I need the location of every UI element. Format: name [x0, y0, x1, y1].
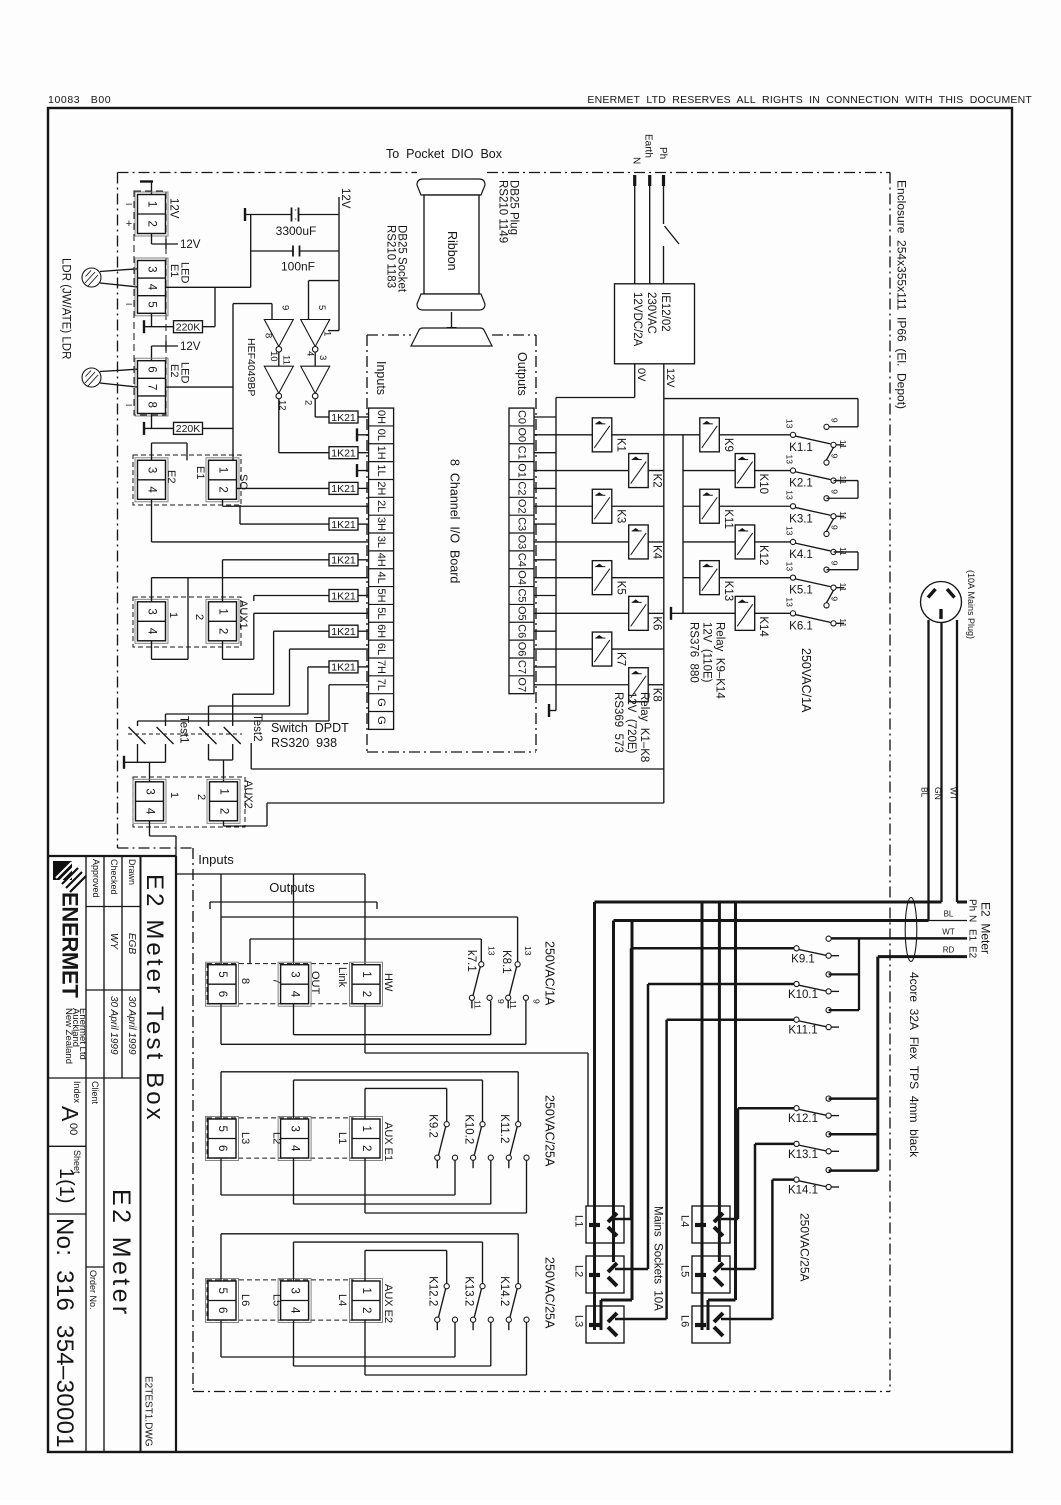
svg-text:250VAC/1A: 250VAC/1A	[799, 648, 813, 713]
svg-text:1K21: 1K21	[331, 483, 356, 495]
svg-text:10: 10	[268, 351, 279, 362]
svg-text:0L: 0L	[375, 429, 387, 441]
connector pins 3-4	[278, 1117, 311, 1161]
svg-text:4: 4	[146, 486, 158, 493]
svg-text:4: 4	[289, 1307, 301, 1314]
switch pole x232.7	[224, 727, 241, 744]
wire K12.2 bottom loop	[220, 1320, 222, 1357]
PSU 0V output	[634, 364, 636, 398]
svg-text:6: 6	[216, 1307, 228, 1313]
svg-text:1: 1	[217, 608, 229, 614]
svg-text:WT: WT	[949, 787, 959, 800]
svg-text:6: 6	[216, 991, 228, 997]
svg-text:OUT: OUT	[309, 971, 321, 995]
wire J1-2 to 12V tap	[151, 234, 153, 245]
wire pin4 to 220K and caps	[166, 286, 251, 288]
svg-text:Checked: Checked	[109, 859, 119, 895]
wire K11.2 top	[220, 1072, 222, 1119]
svg-text:3: 3	[289, 1126, 301, 1132]
connector OUT pins 3-4	[278, 962, 311, 1006]
svg-text:K13.1: K13.1	[788, 1149, 818, 1161]
svg-text:E2 Meter: E2 Meter	[107, 1189, 135, 1318]
svg-text:2: 2	[193, 614, 205, 620]
connector LED E1 pins 3-5	[135, 258, 168, 316]
link K3.1 via bus	[834, 480, 859, 482]
wires into PSU	[634, 186, 636, 284]
svg-text:K8: K8	[651, 688, 663, 702]
svg-text:7: 7	[146, 384, 158, 390]
link K3.1 to K4.1	[827, 519, 834, 532]
svg-text:Order No.: Order No.	[88, 1270, 98, 1310]
relay K5	[592, 561, 612, 595]
svg-text:WY: WY	[108, 933, 119, 950]
svg-text:13: 13	[785, 597, 795, 607]
svg-text:10083 B00: 10083 B00	[48, 94, 111, 106]
svg-text:K1.1: K1.1	[789, 442, 813, 454]
resistor 220K R2	[174, 422, 203, 434]
connector SO pins 1-2	[206, 458, 239, 502]
mains socket L1	[586, 1206, 624, 1243]
svg-text:HEF4049BP: HEF4049BP	[245, 338, 257, 396]
svg-text:2: 2	[360, 1307, 372, 1313]
feeder wires to output group 1	[176, 873, 365, 875]
wire AUX2 to rail at y803	[267, 802, 664, 804]
svg-text:3: 3	[144, 788, 156, 794]
wire O7 to K8 coil	[534, 684, 629, 686]
svg-text:2: 2	[303, 400, 314, 405]
12V rail vertical	[663, 399, 665, 803]
svg-text:No: 316 354–30001: No: 316 354–30001	[51, 1218, 78, 1448]
svg-text:12VDC/2A: 12VDC/2A	[631, 292, 643, 347]
wire O3 to K4 coil	[534, 541, 629, 543]
link K5.1 via bus	[834, 551, 859, 553]
wire K10.2 top	[293, 1080, 295, 1119]
svg-text:Test1: Test1	[178, 716, 190, 744]
socket supply drops	[593, 902, 596, 1330]
svg-text:RS369 573: RS369 573	[612, 692, 624, 753]
connector AUX&#160;E1 L-pins 5-6	[206, 1117, 239, 1161]
svg-text:C1: C1	[516, 446, 528, 460]
svg-text:13: 13	[785, 526, 795, 536]
svg-text:K2.1: K2.1	[789, 478, 813, 490]
svg-text:C2: C2	[516, 481, 528, 495]
socket feed drops from contacts	[630, 948, 633, 1219]
svg-text:L5: L5	[271, 1294, 283, 1306]
dashed box around input connectors	[134, 191, 166, 415]
svg-text:6H: 6H	[375, 624, 387, 638]
svg-text:E2 Meter Test Box: E2 Meter Test Box	[141, 874, 168, 1123]
svg-text:9: 9	[280, 305, 291, 310]
input terminal column 0H-7L G G	[369, 408, 394, 729]
wire U1C out to R4	[278, 399, 280, 453]
contact K3.1	[790, 504, 795, 509]
svg-text:K3.1: K3.1	[789, 513, 813, 525]
connector pins 1-2 AUX&#160;E2	[350, 1279, 383, 1323]
svg-text:Outputs: Outputs	[515, 352, 529, 396]
svg-text:5: 5	[316, 305, 327, 310]
wire K9 to contact K1.1	[719, 434, 790, 436]
contact K11.2	[516, 1122, 521, 1127]
svg-text:K12.2: K12.2	[427, 1276, 439, 1306]
wire E2-4 to 3L	[151, 499, 153, 542]
svg-text:4: 4	[289, 991, 301, 998]
dashed box SO E1 E2	[133, 455, 241, 505]
svg-text:11: 11	[281, 355, 292, 365]
switch pole x165.5	[157, 727, 174, 744]
svg-text:30 April 1999: 30 April 1999	[108, 996, 119, 1055]
svg-text:2: 2	[217, 628, 229, 634]
svg-text:30 April 1999: 30 April 1999	[126, 996, 137, 1055]
K9-K14 feed rail	[682, 435, 684, 613]
svg-text:EGB: EGB	[126, 933, 137, 954]
4core cable sheath	[905, 898, 917, 962]
contact K9.2	[444, 1122, 449, 1127]
svg-text:1: 1	[217, 467, 229, 473]
svg-text:O2: O2	[516, 499, 528, 514]
svg-text:–: –	[126, 399, 133, 411]
mains socket L5	[692, 1256, 730, 1293]
wire K10.2 bottom loop	[293, 1158, 295, 1204]
svg-text:RS210 1183: RS210 1183	[385, 225, 397, 288]
connector AUX2 34	[133, 779, 166, 823]
wire 5H resistor to AUX1 area	[254, 595, 329, 597]
svg-text:E2 Meter: E2 Meter	[979, 902, 993, 954]
svg-text:ENERMET LTD RESERVES ALL R: ENERMET LTD RESERVES ALL RIGHTS IN CONNE…	[587, 94, 1032, 106]
connector LED E2 pins 6-8	[135, 358, 168, 416]
svg-text:Relay K1–K8: Relay K1–K8	[638, 692, 650, 762]
wire R2 to node 233	[202, 427, 233, 429]
svg-text:O0: O0	[516, 428, 528, 443]
svg-text:2: 2	[146, 221, 158, 227]
resistor R4 1K21 ch1	[329, 447, 358, 459]
wire O2 to K3 coil	[534, 505, 592, 507]
wire K9.2 bottom loop	[220, 1158, 222, 1195]
svg-text:Relay K9–K14: Relay K9–K14	[714, 622, 726, 699]
wire K8 coil to 12V rail	[648, 684, 664, 686]
svg-text:E1: E1	[194, 466, 206, 479]
svg-text:6: 6	[146, 366, 158, 372]
resistor R6 1K21 ch3	[329, 518, 358, 530]
svg-text:L6: L6	[679, 1315, 691, 1327]
svg-text:3: 3	[146, 467, 158, 473]
svg-text:1L: 1L	[375, 464, 387, 476]
svg-text:E2: E2	[165, 470, 177, 483]
wire AUX1-3 to 4L	[151, 578, 153, 602]
svg-text:E2: E2	[967, 946, 978, 959]
svg-text:Switch DPDT: Switch DPDT	[271, 721, 349, 735]
wire rail to K13	[683, 577, 700, 579]
dashed box AUX1	[133, 597, 241, 647]
svg-text:L4: L4	[679, 1215, 691, 1227]
ribbon cable body	[424, 195, 479, 294]
svg-text:8: 8	[239, 978, 251, 984]
contact K9.1	[631, 947, 794, 950]
svg-text:Enclosure 254x355x111 IP66: Enclosure 254x355x111 IP66 (El. Depot)	[895, 180, 909, 409]
svg-text:O3: O3	[516, 535, 528, 550]
dashed box group ['K9.2', 'K10.2', 'K11.2']	[207, 1118, 353, 1158]
wire K14.2 bottom loop	[364, 1320, 366, 1375]
svg-text:K11.1: K11.1	[788, 1025, 817, 1037]
relay K10	[735, 454, 755, 488]
svg-text:4: 4	[305, 351, 316, 356]
wire 7H to Test1	[308, 666, 329, 668]
contact K8.1	[515, 962, 520, 967]
inverter U1D	[301, 366, 330, 393]
svg-text:0V: 0V	[635, 368, 647, 382]
svg-text:K3: K3	[614, 509, 626, 523]
relay K3	[592, 489, 612, 523]
svg-text:220K: 220K	[176, 322, 201, 334]
wire O5 to K6 coil	[534, 612, 629, 614]
svg-text:11: 11	[838, 583, 848, 592]
plug wire BL	[927, 620, 929, 921]
connector J1 pins 1-2 12V	[135, 192, 168, 236]
svg-text:N: N	[967, 915, 978, 922]
ground 1L	[357, 470, 369, 472]
svg-text:1: 1	[167, 612, 179, 618]
svg-text:L2: L2	[271, 1132, 283, 1144]
svg-text:K14: K14	[757, 616, 769, 637]
svg-text:5: 5	[146, 301, 158, 307]
svg-text:5: 5	[216, 971, 228, 977]
LDR 2 (ATE)	[82, 368, 101, 387]
svg-text:LED: LED	[179, 362, 191, 383]
svg-text:L1: L1	[336, 1132, 348, 1144]
svg-text:1K21: 1K21	[331, 448, 356, 460]
svg-text:3: 3	[146, 608, 158, 614]
capacitor C2 100nF	[250, 215, 252, 288]
terminal bar left of C1	[244, 208, 246, 221]
WT chain bus	[858, 938, 860, 1010]
contact K13.2	[480, 1284, 485, 1289]
svg-text:HW: HW	[382, 973, 394, 992]
svg-text:RS320 938: RS320 938	[271, 736, 337, 750]
wire K12 to contact K4.1	[755, 541, 791, 543]
svg-text:3H: 3H	[375, 517, 387, 531]
connector 8 pins 5-6	[206, 962, 239, 1006]
svg-text:9: 9	[830, 418, 840, 423]
svg-text:3L: 3L	[375, 536, 387, 548]
svg-text:9: 9	[830, 525, 840, 530]
link K5.1 to K6.1	[827, 590, 834, 603]
plug wire GN	[940, 623, 942, 903]
wire U1A input	[271, 304, 273, 320]
svg-text:K4: K4	[651, 545, 663, 560]
svg-text:1K21: 1K21	[331, 590, 356, 602]
wire K14.2 top	[220, 1234, 222, 1281]
svg-text:12V (110E): 12V (110E)	[701, 622, 713, 683]
DPDT coupler dashed	[128, 733, 242, 735]
svg-text:1(1): 1(1)	[55, 1168, 77, 1204]
svg-text:230VAC: 230VAC	[645, 292, 657, 334]
svg-text:4L: 4L	[375, 572, 387, 584]
svg-text:L1: L1	[573, 1215, 585, 1227]
svg-text:3: 3	[289, 971, 301, 977]
wire O4 to K5 coil	[534, 577, 592, 579]
wire U1B input tied to 12V	[308, 281, 310, 320]
switch pole x137.5	[129, 727, 146, 744]
outputs bracket	[210, 901, 377, 903]
svg-text:LED: LED	[179, 262, 191, 283]
wire HW out	[364, 1004, 366, 1053]
DB25 plug shell top	[417, 179, 485, 195]
DB25 socket on IO board	[411, 328, 492, 346]
resistor R9 1K21 ch6	[329, 625, 358, 637]
svg-text:LDR (JW/ATE) LDR: LDR (JW/ATE) LDR	[60, 258, 72, 359]
enclosure boundary (El. Depot) dash-dot	[118, 172, 418, 174]
svg-text:To Pocket DIO Box: To Pocket DIO Box	[386, 147, 503, 161]
wire K10 to contact K2.1	[755, 470, 791, 472]
svg-text:13: 13	[487, 946, 497, 956]
svg-text:E1: E1	[168, 264, 180, 277]
mains bus N thick	[614, 919, 929, 922]
svg-text:Ph: Ph	[657, 147, 668, 159]
svg-text:L3: L3	[573, 1315, 585, 1327]
AUX2 pin loops	[149, 821, 151, 836]
svg-text:11: 11	[508, 1000, 518, 1009]
svg-text:4H: 4H	[375, 553, 387, 567]
svg-text:L6: L6	[239, 1294, 251, 1306]
svg-text:O1: O1	[516, 463, 528, 478]
svg-text:12V: 12V	[168, 198, 180, 219]
contact k7.1	[479, 962, 484, 967]
terminal Earth	[648, 175, 651, 186]
svg-text:6L: 6L	[375, 643, 387, 655]
svg-text:Earth: Earth	[643, 134, 654, 158]
svg-text:2L: 2L	[375, 500, 387, 512]
svg-text:O7: O7	[516, 677, 528, 692]
wire K4 coil to 12V rail	[648, 541, 664, 543]
svg-text:New Zealand: New Zealand	[63, 1008, 74, 1064]
svg-text:L3: L3	[239, 1132, 251, 1144]
relay K2	[629, 454, 649, 488]
svg-text:1: 1	[360, 1288, 372, 1294]
IO board dash-dot box	[367, 334, 411, 336]
wire K6 coil to 12V rail	[648, 612, 664, 614]
svg-text:250VAC/25A: 250VAC/25A	[543, 1257, 557, 1329]
svg-text:C0: C0	[516, 410, 528, 424]
svg-text:L2: L2	[573, 1265, 585, 1277]
RD chain bus	[829, 1097, 878, 1100]
resistor R5 1K21 ch2	[329, 482, 358, 494]
wire K5 coil to 12V rail	[612, 577, 664, 579]
svg-text:9: 9	[830, 596, 840, 601]
connector pins 3-4	[278, 1279, 311, 1323]
wire 3H resistor left	[240, 523, 329, 525]
wire SO-2 to 2L	[222, 499, 224, 506]
ground test bus	[123, 756, 125, 769]
terminal Ph	[662, 175, 665, 186]
resistor R10 1K21 ch7	[329, 661, 358, 673]
wire K9.2 top	[364, 1088, 366, 1119]
svg-text:AUX E1: AUX E1	[382, 1122, 394, 1161]
meter wire E2 RD	[878, 955, 967, 958]
svg-text:12V: 12V	[339, 188, 351, 209]
svg-text:13: 13	[785, 455, 795, 465]
terminal N	[633, 175, 636, 186]
wire U1B out to U1D in	[314, 352, 316, 366]
mains socket L4	[692, 1206, 730, 1243]
wire 7L to Test1	[329, 684, 369, 686]
meter wire E1 WT	[829, 937, 967, 940]
250VAC bus from 12V node to contacts	[664, 398, 858, 400]
wire to k7.1 top	[250, 938, 481, 940]
svg-text:1K21: 1K21	[331, 662, 356, 674]
wire rail to K10	[683, 470, 735, 472]
svg-text:Inputs: Inputs	[198, 852, 234, 867]
svg-text:O5: O5	[516, 606, 528, 621]
svg-text:2H: 2H	[375, 481, 387, 495]
svg-text:4core 32A Flex TPS 4mm bl: 4core 32A Flex TPS 4mm black	[907, 972, 921, 1158]
svg-text:Drawn: Drawn	[127, 859, 137, 885]
svg-text:O6: O6	[516, 642, 528, 657]
svg-text:C7: C7	[516, 660, 528, 674]
relay K8	[629, 668, 649, 702]
capacitor C1 3300uF	[245, 214, 292, 216]
svg-text:Link: Link	[336, 967, 348, 988]
svg-text:1K21: 1K21	[331, 412, 356, 424]
wire AUX1-4 loop to 4L	[151, 641, 153, 660]
wire 6L to Test2	[290, 648, 369, 650]
wire K13 to contact K5.1	[719, 577, 790, 579]
connector AUX1 12	[206, 599, 239, 643]
switch pole x208.5	[200, 727, 217, 744]
connector HW pins 1-2	[350, 962, 383, 1006]
inverter U1A HEF4049	[264, 320, 293, 347]
dashed box group ['K12.2', 'K13.2', 'K14.2']	[207, 1280, 353, 1320]
svg-text:1: 1	[322, 331, 333, 336]
wire rail to K12	[683, 541, 735, 543]
ground 0V bus	[549, 710, 556, 712]
svg-text:7H: 7H	[375, 660, 387, 674]
svg-text:8: 8	[146, 401, 158, 407]
svg-text:2: 2	[218, 808, 230, 814]
relay K6	[629, 596, 649, 630]
svg-text:Ph: Ph	[967, 899, 978, 911]
svg-text:K4.1: K4.1	[789, 549, 813, 561]
wire K13.2 bottom loop	[293, 1320, 295, 1366]
svg-text:1K21: 1K21	[331, 519, 356, 531]
arrow to socket	[451, 312, 453, 327]
inverter U1C	[264, 366, 293, 393]
svg-text:K9.2: K9.2	[427, 1114, 439, 1138]
svg-text:k7.1: k7.1	[465, 950, 477, 972]
connector AUX1 34	[135, 599, 168, 643]
dashed box AUX2	[133, 777, 245, 827]
svg-text:AUX1: AUX1	[237, 600, 249, 629]
0V bus to output commons	[556, 397, 635, 399]
svg-text:5H: 5H	[375, 588, 387, 602]
svg-text:L4: L4	[336, 1294, 348, 1306]
svg-text:K10.1: K10.1	[788, 989, 818, 1001]
svg-text:Index: Index	[72, 1081, 82, 1104]
connector AUX&#160;E2 L-pins 5-6	[206, 1279, 239, 1323]
svg-text:11: 11	[473, 1000, 483, 1009]
svg-text:2: 2	[195, 794, 207, 800]
resistor R8 1K21 ch5	[329, 590, 358, 602]
svg-text:C5: C5	[516, 588, 528, 602]
ground at connector J1 pin1	[140, 180, 153, 182]
svg-text:Outputs: Outputs	[269, 880, 315, 895]
wire 5 to K8.1 top	[221, 916, 518, 918]
svg-text:E2: E2	[168, 364, 180, 377]
svg-text:11: 11	[838, 618, 848, 627]
svg-text:RD: RD	[943, 946, 955, 955]
svg-text:G: G	[375, 716, 387, 725]
svg-text:RS376 880: RS376 880	[688, 622, 700, 683]
DB25 plug shell bottom	[417, 294, 485, 310]
wire O6 to K7 coil	[534, 648, 592, 650]
